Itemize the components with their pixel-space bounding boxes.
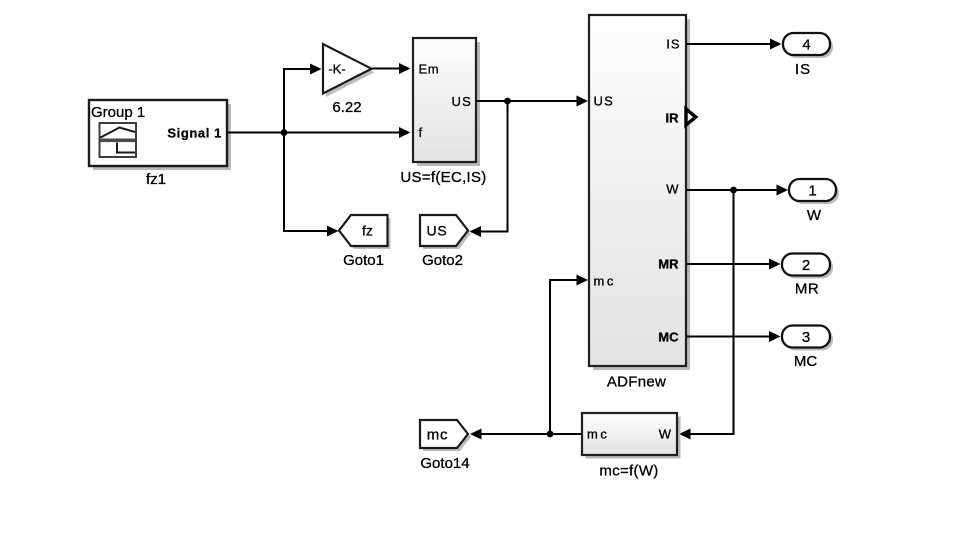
svg-text:mc=f(W): mc=f(W) xyxy=(599,463,658,480)
node junction on signal wire xyxy=(281,129,288,136)
svg-text:MC: MC xyxy=(794,353,817,370)
svg-text:IR: IR xyxy=(666,111,680,126)
goto tag Goto14 (mc) xyxy=(420,420,471,472)
outport 2 (MR) xyxy=(782,254,833,298)
svg-text:MC: MC xyxy=(658,330,679,345)
svg-text:US: US xyxy=(452,94,472,109)
svg-text:Em: Em xyxy=(419,62,440,77)
svg-text:mc: mc xyxy=(427,427,449,444)
svg-text:Group 1: Group 1 xyxy=(91,104,145,121)
wire gain output to Em input xyxy=(372,63,411,74)
node junction on mc wire xyxy=(547,431,554,438)
wire MR output to outport 2 xyxy=(686,259,781,270)
outport 3 (MC) xyxy=(782,326,833,371)
svg-text:MR: MR xyxy=(658,257,679,272)
goto tag Goto1 (fz) xyxy=(339,215,391,269)
wire IS output to outport 4 xyxy=(686,39,782,50)
wire W output to outport 1 xyxy=(686,185,788,196)
subsystem block US=f(EC,IS) xyxy=(400,38,486,186)
svg-text:Goto2: Goto2 xyxy=(422,252,463,269)
svg-text:Goto14: Goto14 xyxy=(420,455,469,472)
svg-text:Goto1: Goto1 xyxy=(343,252,384,269)
subsystem block ADFnew xyxy=(589,15,690,391)
svg-text:6.22: 6.22 xyxy=(332,99,361,116)
wire junction down to Goto1 xyxy=(284,133,339,237)
svg-text:ADFnew: ADFnew xyxy=(607,374,666,391)
wire junction up to ADFnew mc input xyxy=(550,275,588,435)
outport 4 (IS) xyxy=(783,33,833,78)
wire MC output to outport 3 xyxy=(686,331,781,342)
svg-text:Signal 1: Signal 1 xyxy=(167,126,222,141)
wire US output to ADFnew US input xyxy=(476,96,588,107)
svg-text:W: W xyxy=(666,182,679,197)
svg-text:3: 3 xyxy=(802,329,810,346)
svg-text:W: W xyxy=(659,427,672,442)
outport 1 (W) xyxy=(789,179,839,224)
svg-text:-K-: -K- xyxy=(328,62,345,77)
subsystem block mc=f(W) xyxy=(582,413,681,480)
svg-text:IS: IS xyxy=(795,61,811,78)
svg-text:W: W xyxy=(807,207,822,224)
svg-text:US=f(EC,IS): US=f(EC,IS) xyxy=(400,169,486,186)
svg-text:mc: mc xyxy=(587,427,609,442)
wire mc=f(W) output to Goto14 xyxy=(470,429,582,440)
wire junction down to Goto2 xyxy=(470,101,508,237)
svg-text:1: 1 xyxy=(808,183,816,200)
svg-text:IS: IS xyxy=(666,37,680,52)
svg-text:f: f xyxy=(419,125,423,140)
svg-text:fz1: fz1 xyxy=(146,171,166,188)
wire fz1 output to f input xyxy=(227,127,411,138)
goto tag Goto2 (US) xyxy=(420,215,471,269)
unconnected output port IR marker xyxy=(686,109,696,125)
node junction on W wire xyxy=(730,187,737,194)
svg-text:fz: fz xyxy=(362,223,373,239)
svg-text:mc: mc xyxy=(594,274,616,289)
wire W junction down to mc=f(W) W input xyxy=(679,190,734,440)
gain block 6.22 xyxy=(323,44,375,116)
svg-text:2: 2 xyxy=(802,257,810,274)
node junction on US wire xyxy=(504,98,511,105)
svg-text:MR: MR xyxy=(795,281,819,298)
wire junction up to gain input xyxy=(284,64,322,133)
svg-text:4: 4 xyxy=(802,37,810,54)
signal builder block fz1 xyxy=(89,100,231,188)
svg-text:US: US xyxy=(426,223,447,239)
svg-text:US: US xyxy=(594,94,614,109)
